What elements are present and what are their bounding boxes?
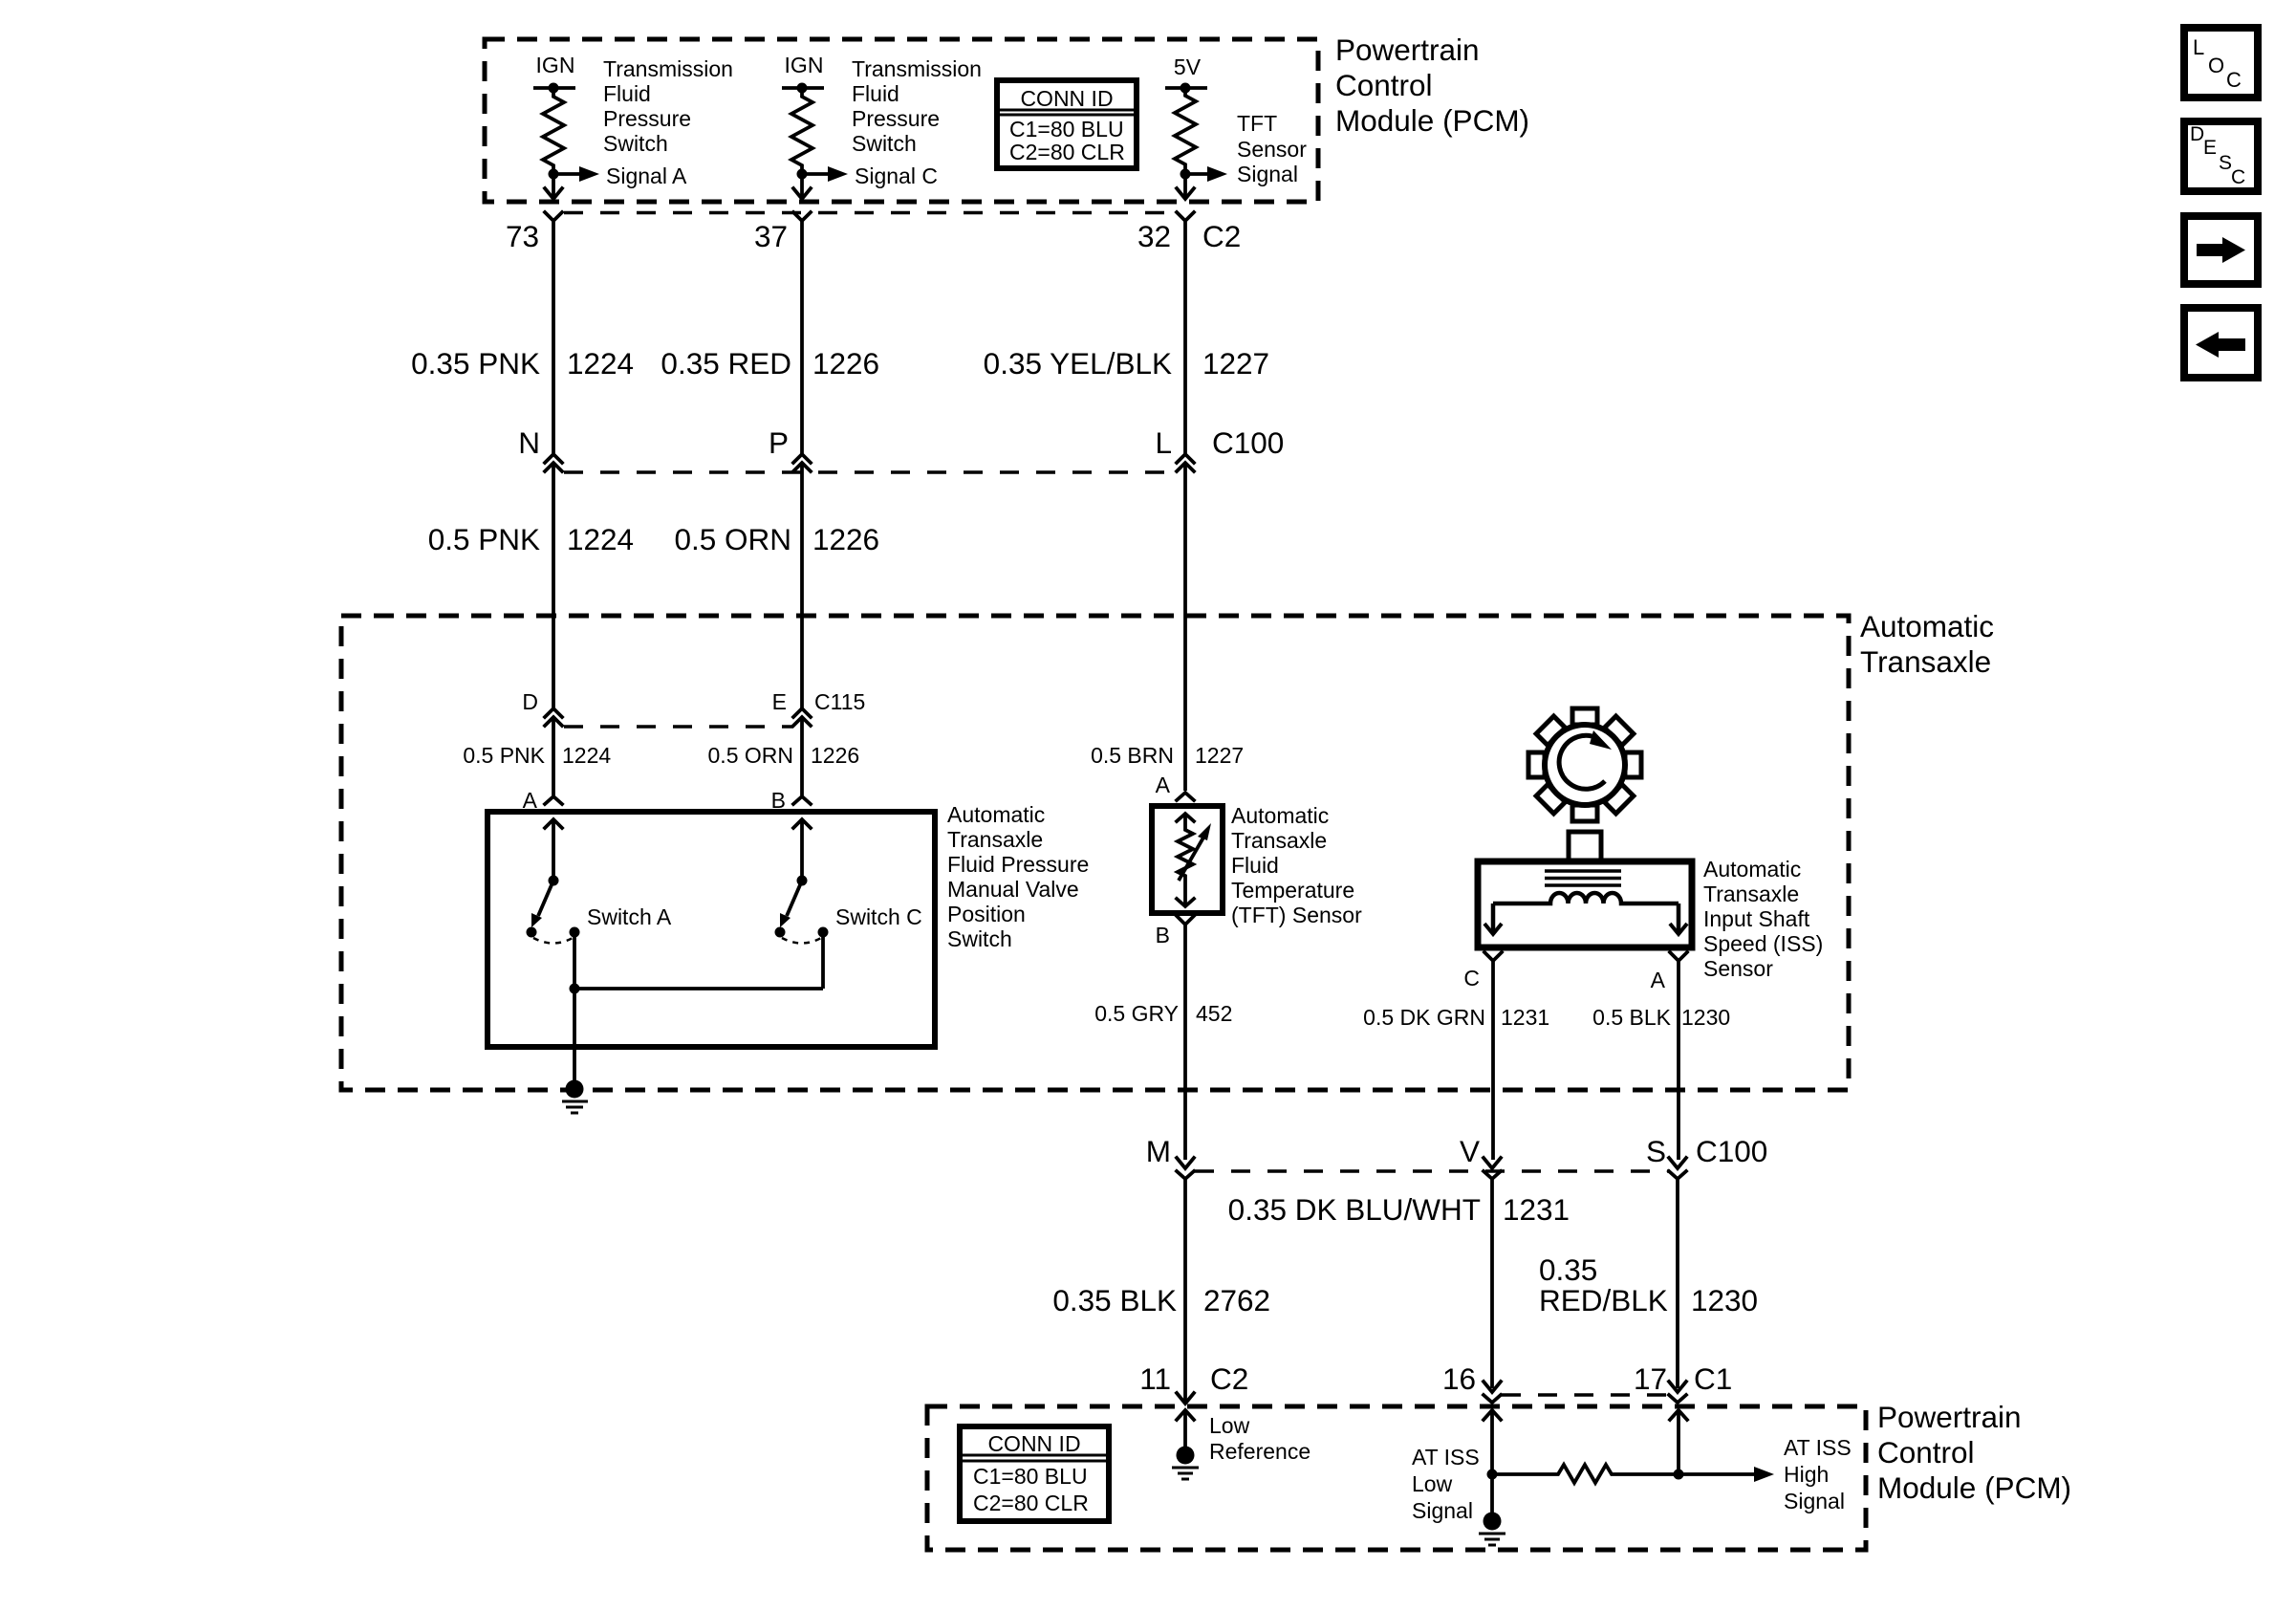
svg-text:A: A [1156, 773, 1171, 797]
svg-text:A: A [1651, 968, 1666, 992]
wire: signal A arrow [553, 172, 580, 176]
svg-text:Control: Control [1877, 1435, 1975, 1469]
connector C100 chevrons pin N [545, 454, 562, 710]
label: Automatic Transaxle Fluid Pressure Manual Valve Position Switch [947, 802, 1089, 951]
svg-text:C2=80 CLR: C2=80 CLR [1009, 140, 1125, 164]
svg-text:1226: 1226 [811, 743, 859, 768]
svg-text:C2: C2 [1210, 1361, 1248, 1396]
exit fork ISS pin A [1670, 952, 1687, 1160]
connector fork pin 37 [793, 212, 811, 455]
svg-text:17: 17 [1634, 1361, 1667, 1396]
connector C100 lower chevrons pin V [1484, 1158, 1501, 1388]
entry fork switch pin A [545, 796, 562, 804]
label: Powertrain Control Module (PCM) top [1335, 33, 1529, 138]
svg-text:(TFT) Sensor: (TFT) Sensor [1231, 903, 1362, 927]
junction dot IGN left [549, 83, 559, 94]
svg-text:AT ISS: AT ISS [1784, 1435, 1852, 1460]
svg-text:C100: C100 [1212, 425, 1284, 460]
icon: next arrow button [2184, 216, 2258, 284]
svg-text:Speed (ISS): Speed (ISS) [1703, 931, 1823, 956]
junction dot AT ISS high [1674, 1469, 1684, 1480]
connector C100 chevrons pin L [1177, 454, 1194, 791]
svg-text:Temperature: Temperature [1231, 878, 1354, 903]
svg-text:Transaxle: Transaxle [947, 827, 1043, 852]
icon: LOC button [2184, 28, 2258, 98]
wire: AT ISS high entry arrow [1670, 1410, 1687, 1474]
svg-text:0.5 DK GRN: 0.5 DK GRN [1363, 1005, 1485, 1030]
connector C115 chevrons pin E [793, 708, 811, 795]
svg-text:C100: C100 [1696, 1134, 1767, 1168]
connector C100 lower chevrons pin S [1669, 1158, 1686, 1388]
PCM module box (top, dashed) [485, 39, 1318, 202]
svg-text:V: V [1460, 1134, 1480, 1168]
svg-text:16: 16 [1442, 1361, 1476, 1396]
svg-text:C: C [2231, 166, 2245, 188]
ground (AT ISS low) [1479, 1513, 1505, 1546]
svg-text:TFT: TFT [1237, 111, 1277, 136]
resistor: TFP switch C pull-up [791, 88, 812, 174]
svg-text:IGN: IGN [785, 53, 824, 77]
svg-text:Switch: Switch [852, 131, 917, 156]
Automatic Transaxle box (dashed) [341, 616, 1849, 1090]
svg-text:C: C [2226, 68, 2242, 92]
svg-text:Automatic: Automatic [1860, 609, 1994, 643]
svg-text:1227: 1227 [1195, 743, 1244, 768]
svg-text:IGN: IGN [536, 53, 575, 77]
svg-text:Fluid: Fluid [603, 81, 651, 106]
svg-text:0.5 PNK: 0.5 PNK [428, 522, 540, 556]
IGN supply bar left [533, 86, 575, 90]
connector C2 dashed line [564, 211, 1180, 215]
svg-text:Signal: Signal [1784, 1489, 1845, 1513]
TFT sensor element (variable resistor) [1177, 814, 1211, 906]
svg-text:0.35 PNK: 0.35 PNK [411, 346, 540, 381]
wire: AT ISS high signal arrow [1679, 1472, 1755, 1476]
wire: common bus [574, 987, 823, 991]
svg-text:P: P [769, 425, 789, 460]
svg-text:1230: 1230 [1681, 1005, 1730, 1030]
svg-text:Switch A: Switch A [587, 904, 672, 929]
svg-text:0.5 BLK: 0.5 BLK [1592, 1005, 1671, 1030]
wire: TFT signal arrow [1185, 172, 1208, 176]
switch C (blade + contacts) [775, 876, 829, 944]
svg-text:S: S [2219, 152, 2232, 174]
wire: switch C input with arrow [793, 819, 811, 881]
svg-text:Switch C: Switch C [835, 904, 922, 929]
svg-text:CONN ID: CONN ID [987, 1431, 1080, 1456]
svg-text:37: 37 [754, 219, 788, 253]
label: TFT Sensor Signal [1237, 111, 1307, 186]
svg-text:0.5 GRY: 0.5 GRY [1094, 1001, 1179, 1026]
wire: down to pin 73 with exit arrow [552, 174, 555, 198]
svg-text:Position: Position [947, 902, 1026, 926]
icon: DESC button [2184, 121, 2258, 191]
svg-text:CONN ID: CONN ID [1020, 86, 1113, 111]
svg-text:E: E [2203, 137, 2217, 159]
connector C1 chevrons pin 16 [1484, 1382, 1501, 1403]
entry fork TFT pin A [1177, 793, 1194, 800]
svg-text:C115: C115 [814, 689, 865, 714]
connector C100 dashed line (lower) [1195, 1169, 1670, 1173]
svg-text:Control: Control [1335, 68, 1433, 102]
5V supply bar [1165, 86, 1207, 90]
exit fork TFT pin B [1177, 916, 1194, 1160]
svg-text:0.5 ORN: 0.5 ORN [674, 522, 791, 556]
junction dot signal C [797, 169, 808, 180]
svg-text:Low: Low [1412, 1471, 1453, 1496]
svg-text:Powertrain: Powertrain [1877, 1400, 2022, 1434]
svg-text:Sensor: Sensor [1237, 137, 1307, 162]
svg-text:E: E [772, 689, 787, 714]
svg-text:AT ISS: AT ISS [1412, 1445, 1480, 1469]
svg-text:1224: 1224 [567, 346, 634, 381]
svg-text:0.5 PNK: 0.5 PNK [463, 743, 545, 768]
CONN ID table (bottom) [960, 1426, 1109, 1521]
svg-text:Manual Valve: Manual Valve [947, 877, 1079, 902]
svg-text:Sensor: Sensor [1703, 956, 1773, 981]
icon: back arrow button [2184, 308, 2258, 378]
svg-text:Reference: Reference [1209, 1439, 1310, 1464]
svg-text:Automatic: Automatic [1231, 803, 1329, 828]
connector fork pin 32 [1177, 212, 1194, 455]
svg-text:1231: 1231 [1501, 1005, 1549, 1030]
resistor: ISS input (internal) [1492, 1465, 1679, 1483]
ISS reluctor gear icon [1505, 686, 1665, 845]
wire: bus to ground [573, 989, 576, 1082]
wire: down to pin 32 with exit arrow [1183, 174, 1187, 198]
label: Automatic Transaxle Fluid Temperature (TFT) Sensor [1231, 803, 1362, 927]
connector C115 chevrons pin D [545, 708, 562, 795]
TFT sensor box [1152, 806, 1223, 913]
label: Automatic Transaxle [1860, 609, 1994, 679]
svg-text:0.35 DK BLU/WHT: 0.35 DK BLU/WHT [1228, 1192, 1481, 1227]
svg-text:0.35 RED: 0.35 RED [661, 346, 791, 381]
svg-text:Switch: Switch [947, 926, 1012, 951]
resistor: TFP switch A pull-up [543, 88, 564, 174]
resistor: TFT sensor pull-up [1175, 88, 1196, 174]
svg-text:73: 73 [506, 219, 539, 253]
svg-text:Automatic: Automatic [947, 802, 1045, 827]
junction dot AT ISS low [1487, 1469, 1498, 1480]
svg-text:0.5 ORN: 0.5 ORN [708, 743, 793, 768]
svg-text:Signal C: Signal C [855, 163, 938, 188]
svg-text:1224: 1224 [562, 743, 611, 768]
wire label 0.35 RED/BLK 1230 [1539, 1252, 1758, 1317]
svg-text:Module (PCM): Module (PCM) [1877, 1470, 2071, 1505]
junction dot TFT signal [1180, 169, 1191, 180]
connector C1 dashed line [1502, 1393, 1670, 1397]
svg-text:Pressure: Pressure [603, 106, 691, 131]
svg-text:1226: 1226 [812, 346, 879, 381]
svg-text:Fluid: Fluid [1231, 853, 1279, 878]
label: Transmission Fluid Pressure Switch Signal C [852, 56, 982, 188]
PCM module box (bottom, dashed) [927, 1406, 1866, 1550]
wire: AT ISS low entry arrow [1484, 1410, 1501, 1513]
svg-text:Powertrain: Powertrain [1335, 33, 1480, 67]
junction dot signal A [549, 169, 559, 180]
connector C100 chevrons pin P [793, 454, 811, 710]
svg-text:C2: C2 [1202, 219, 1241, 253]
label: AT ISS Low Signal [1412, 1445, 1480, 1523]
entry fork switch pin B [793, 796, 811, 804]
svg-text:32: 32 [1137, 219, 1171, 253]
junction dot 5V [1180, 83, 1191, 94]
svg-text:1226: 1226 [812, 522, 879, 556]
svg-text:High: High [1784, 1462, 1829, 1487]
svg-text:Module (PCM): Module (PCM) [1335, 103, 1529, 138]
svg-text:Transmission: Transmission [852, 56, 982, 81]
svg-text:Signal: Signal [1412, 1498, 1473, 1523]
connector C100 dashed line [564, 470, 1177, 474]
svg-text:Switch: Switch [603, 131, 668, 156]
TFP manual valve position switch box [487, 812, 935, 1047]
label: Transmission Fluid Pressure Switch Signal A [603, 56, 733, 188]
svg-text:C1: C1 [1694, 1361, 1732, 1396]
connector C1 chevrons pin 17 [1669, 1382, 1686, 1403]
svg-text:N: N [518, 425, 540, 460]
svg-text:C1=80 BLU: C1=80 BLU [1009, 117, 1124, 142]
svg-text:0.35 BLK: 0.35 BLK [1052, 1283, 1177, 1317]
wire: low reference entry arrow [1177, 1410, 1194, 1447]
wire: signal C arrow [802, 172, 829, 176]
svg-text:C2=80 CLR: C2=80 CLR [973, 1491, 1089, 1515]
svg-text:2762: 2762 [1203, 1283, 1270, 1317]
svg-text:L: L [1155, 425, 1172, 460]
ISS sensor element (coil + core) [1484, 871, 1687, 934]
label: Low Reference [1209, 1413, 1310, 1464]
ground (switch common) [562, 1080, 588, 1114]
svg-text:1230: 1230 [1691, 1283, 1758, 1317]
junction dot IGN middle [797, 83, 808, 94]
junction dot bus [570, 984, 580, 994]
wire: switch A contact to bus [573, 932, 576, 989]
svg-text:C1=80 BLU: C1=80 BLU [973, 1464, 1088, 1489]
svg-text:0.35 YEL/BLK: 0.35 YEL/BLK [984, 346, 1172, 381]
svg-text:Signal: Signal [1237, 162, 1298, 186]
svg-text:1227: 1227 [1202, 346, 1269, 381]
svg-text:Fluid: Fluid [852, 81, 899, 106]
svg-text:M: M [1146, 1134, 1171, 1168]
svg-text:S: S [1646, 1134, 1666, 1168]
CONN ID table (top) [997, 80, 1137, 168]
IGN supply bar middle [782, 86, 824, 90]
svg-text:452: 452 [1196, 1001, 1232, 1026]
svg-text:1224: 1224 [567, 522, 634, 556]
svg-text:0.5 BRN: 0.5 BRN [1091, 743, 1174, 768]
svg-text:0.35: 0.35 [1539, 1252, 1597, 1287]
svg-text:Transaxle: Transaxle [1860, 644, 1991, 679]
label: Automatic Transaxle Input Shaft Speed (ISS) Sensor [1703, 857, 1823, 981]
wire: down to pin 37 with exit arrow [800, 174, 804, 198]
svg-text:Signal A: Signal A [606, 163, 687, 188]
label: Powertrain Control Module (PCM) bottom [1877, 1400, 2071, 1505]
exit arrow pin 11 [1177, 1393, 1194, 1404]
svg-text:Automatic: Automatic [1703, 857, 1801, 882]
svg-text:C: C [1463, 966, 1480, 991]
svg-text:1231: 1231 [1503, 1192, 1570, 1227]
svg-text:Pressure: Pressure [852, 106, 940, 131]
connector fork pin 73 [545, 212, 562, 455]
switch A (blade + contacts) [527, 876, 580, 944]
svg-text:L: L [2193, 35, 2204, 59]
ISS sensor box [1478, 861, 1692, 947]
svg-text:Input Shaft: Input Shaft [1703, 906, 1810, 931]
svg-text:Fluid Pressure: Fluid Pressure [947, 852, 1089, 877]
wire: switch A input with arrow [545, 819, 562, 881]
svg-text:Transaxle: Transaxle [1231, 828, 1327, 853]
label: AT ISS High Signal [1784, 1435, 1852, 1513]
svg-text:Transmission: Transmission [603, 56, 733, 81]
svg-text:11: 11 [1139, 1361, 1171, 1396]
svg-text:O: O [2208, 54, 2224, 77]
svg-text:Transaxle: Transaxle [1703, 882, 1799, 906]
svg-text:5V: 5V [1174, 54, 1202, 79]
svg-text:D: D [522, 689, 538, 714]
connector C115 dashed line [564, 725, 793, 729]
svg-text:D: D [2190, 123, 2204, 145]
svg-text:Low: Low [1209, 1413, 1250, 1438]
svg-text:B: B [1156, 923, 1170, 947]
connector C100 lower chevrons pin M [1177, 1158, 1194, 1401]
wire: switch C contact to bus [821, 932, 825, 989]
ground (low reference) [1172, 1447, 1199, 1480]
svg-text:RED/BLK: RED/BLK [1539, 1283, 1668, 1317]
exit fork ISS pin C [1484, 952, 1502, 1160]
ISS sensor stem [1569, 832, 1601, 861]
